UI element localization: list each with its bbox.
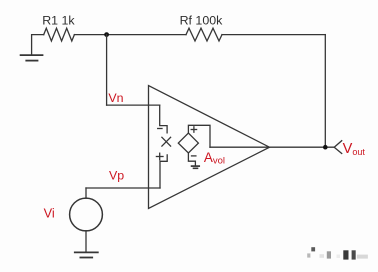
svg-text:Rf 100k: Rf 100k [180, 13, 224, 27]
resistor Rf [180, 13, 224, 41]
wire Vp horizontal [86, 187, 160, 189]
svg-text:Avol: Avol [204, 150, 225, 167]
wire ground to R1 [32, 35, 44, 56]
wire R1 to Rf [74, 34, 186, 36]
multiplier X [162, 137, 171, 146]
wire Vn vertical from junction [106, 35, 108, 106]
ground internal (below diamond) [188, 153, 199, 168]
source Vi [70, 188, 103, 252]
watermark logo [307, 247, 368, 259]
ground GND1 [21, 55, 43, 61]
svg-text:R1 1k: R1 1k [42, 13, 75, 27]
svg-text:Vn: Vn [108, 91, 123, 105]
svg-text:Vout: Vout [343, 141, 366, 157]
wire diamond top to output node [188, 125, 210, 147]
wire output (apex to pin) [210, 146, 334, 148]
op-amp U1 triangle [149, 86, 270, 209]
node junction (inverting input node) [104, 32, 109, 37]
wire Rf to feedback corner [222, 34, 325, 36]
svg-text:Vp: Vp [109, 169, 124, 183]
ground GND2 [75, 252, 98, 257]
node output junction [323, 145, 328, 150]
dependent source Avol (diamond) [178, 127, 198, 156]
wire Vn horizontal into op-amp [107, 104, 160, 106]
input bracket negative (minus sense) [158, 105, 167, 133]
connector pin Vout [334, 141, 342, 154]
wire feedback vertical [324, 35, 326, 148]
input bracket positive (plus sense) [156, 153, 167, 188]
resistor R1 [42, 13, 75, 41]
svg-text:Vi: Vi [44, 206, 55, 221]
